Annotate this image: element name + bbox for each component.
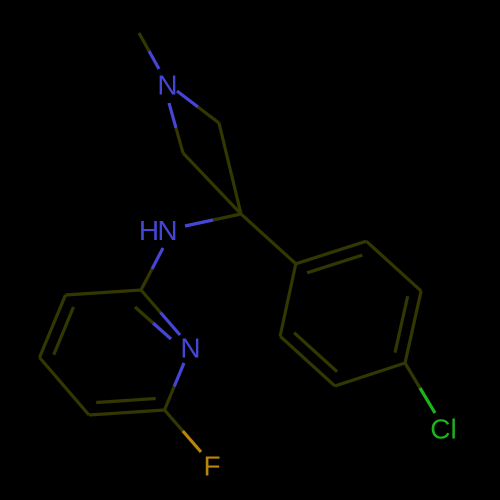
svg-text:F: F xyxy=(203,451,220,482)
svg-text:Cl: Cl xyxy=(430,414,456,445)
svg-text:H: H xyxy=(139,215,159,246)
svg-text:N: N xyxy=(157,70,177,101)
svg-text:N: N xyxy=(157,215,177,246)
svg-text:N: N xyxy=(180,333,200,364)
